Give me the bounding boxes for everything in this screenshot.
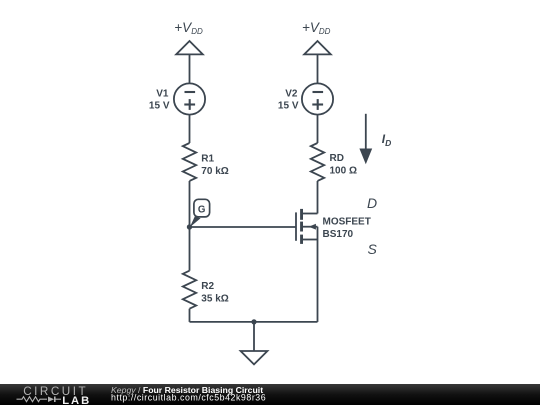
CircuitLab logo bbox=[17, 385, 92, 405]
svg-text:+VDD: +VDD bbox=[302, 20, 331, 36]
svg-text:V2: V2 bbox=[285, 89, 298, 100]
channel bar bottom bbox=[300, 235, 303, 244]
current arrow ID bbox=[359, 114, 391, 165]
wire gate node to MOSFET gate bbox=[190, 226, 297, 228]
body lead with arrow bbox=[303, 226, 318, 228]
svg-text:+VDD: +VDD bbox=[174, 20, 203, 36]
node G flag bbox=[190, 199, 210, 227]
wire R2 to bottom rail bbox=[189, 309, 191, 322]
junction node ground bbox=[251, 319, 256, 324]
svg-text:V1: V1 bbox=[156, 89, 169, 100]
wire V1 to R1 bbox=[189, 115, 191, 143]
channel bar top bbox=[300, 209, 303, 220]
svg-text:D: D bbox=[367, 195, 377, 211]
voltage source V2 15 V bbox=[278, 83, 333, 114]
svg-text:LAB: LAB bbox=[62, 395, 91, 405]
footer bar bbox=[0, 384, 540, 405]
svg-text:G: G bbox=[198, 204, 206, 215]
channel bar middle bbox=[300, 222, 303, 232]
svg-text:100 Ω: 100 Ω bbox=[330, 166, 357, 177]
junction node gate bbox=[187, 224, 192, 229]
transistor M1 MOSFET BS170 bbox=[296, 209, 371, 244]
wire supply to V2 bbox=[317, 54, 319, 83]
voltage source V1 15 V bbox=[149, 83, 205, 114]
drain lead bbox=[302, 213, 318, 215]
svg-text:BS170: BS170 bbox=[323, 229, 354, 240]
svg-text:35 kΩ: 35 kΩ bbox=[201, 294, 228, 305]
wire bottom rail bbox=[190, 321, 318, 323]
svg-text:RD: RD bbox=[330, 153, 344, 164]
svg-text:MOSFEET: MOSFEET bbox=[323, 217, 371, 228]
svg-text:ID: ID bbox=[382, 132, 391, 148]
resistor R1 70 kOhm bbox=[183, 143, 229, 181]
svg-text:15 V: 15 V bbox=[149, 101, 170, 112]
svg-text:http://circuitlab.com/cfc5b42k: http://circuitlab.com/cfc5b42k98r36 bbox=[111, 393, 266, 403]
gate bar bbox=[295, 212, 297, 240]
source lead bbox=[302, 239, 318, 241]
wire supply to V1 bbox=[189, 54, 191, 83]
wire RD to MOSFET drain bbox=[317, 181, 319, 214]
resistor R2 35 kOhm bbox=[183, 271, 229, 309]
supply +VDD flag (left) bbox=[174, 20, 203, 55]
svg-text:S: S bbox=[368, 241, 378, 257]
svg-text:R2: R2 bbox=[201, 281, 214, 292]
wire MOSFET source to bottom rail bbox=[317, 227, 319, 322]
svg-text:15 V: 15 V bbox=[278, 101, 299, 112]
wire R1 to gate node bbox=[189, 181, 191, 271]
supply +VDD flag (right) bbox=[302, 20, 331, 55]
svg-text:R1: R1 bbox=[201, 154, 214, 165]
wire V2 to RD bbox=[317, 115, 319, 143]
svg-text:70 kΩ: 70 kΩ bbox=[201, 166, 228, 177]
ground bbox=[241, 322, 268, 365]
resistor RD 100 Ohm bbox=[311, 143, 357, 181]
